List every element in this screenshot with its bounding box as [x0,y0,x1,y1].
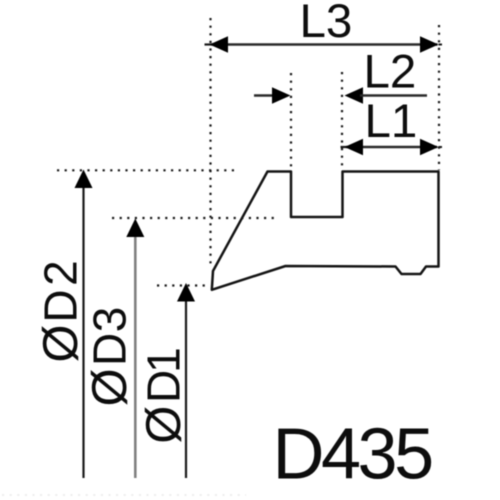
dimension L3 right arrowhead [420,36,442,53]
extension line notch-right (x=342 dotted) [341,72,343,170]
svg-text:1: 1 [138,347,190,373]
dimension D2 arrowhead (up at y=170.5) [75,170,93,189]
svg-text:Ø: Ø [34,324,88,362]
svg-text:L1: L1 [365,95,418,148]
dimension D1 arrowhead (up at y=284) [177,283,195,302]
dimension L1 left arrowhead [345,139,364,156]
part profile [212,172,439,290]
dimension D3 stem (gray) [134,236,137,478]
svg-text:D: D [35,289,87,322]
svg-text:3: 3 [84,307,136,333]
dimension L1 text [365,95,418,148]
svg-text:Ø: Ø [83,368,137,406]
dimension L3 text [300,0,353,48]
dimension D2 text [34,260,88,362]
level line D3 (y=218 dotted) [112,217,278,219]
svg-text:Ø: Ø [137,406,191,444]
svg-text:D435: D435 [273,415,433,495]
dimension L1 right arrowhead [420,139,442,156]
dimension L1 line [341,146,438,148]
dimension L3 line [205,43,438,45]
dimension D1 text [137,347,191,443]
dimension D2 stem [82,186,84,478]
dimension L2 outside arrow right (points left at x=345) [345,87,428,104]
level line D2 (y=170 dotted) [57,169,236,171]
extension line right (x=439 dotted) [438,25,440,170]
extension line notch-left (x=291 dotted) [290,73,292,170]
dimension L2 text [364,46,417,99]
svg-text:D: D [138,370,190,403]
dimension D1 stem [185,300,187,478]
dimension D3 text [83,307,137,407]
svg-text:L3: L3 [300,0,353,48]
level line D1 (y=285.5 dotted) [157,284,210,286]
dimension L2 outside arrow left (points right at x=290) [254,87,291,104]
faint construction dotted line bottom [2,494,246,496]
svg-text:2: 2 [35,260,87,286]
extension line left (x=210.5 dotted) [209,18,211,268]
dimension D3 arrowhead (up at y=219.5) [126,219,144,238]
svg-text:L2: L2 [364,46,417,99]
part number D435 [273,415,433,495]
svg-text:D: D [84,333,136,366]
dimension L3 left arrowhead [210,36,229,53]
